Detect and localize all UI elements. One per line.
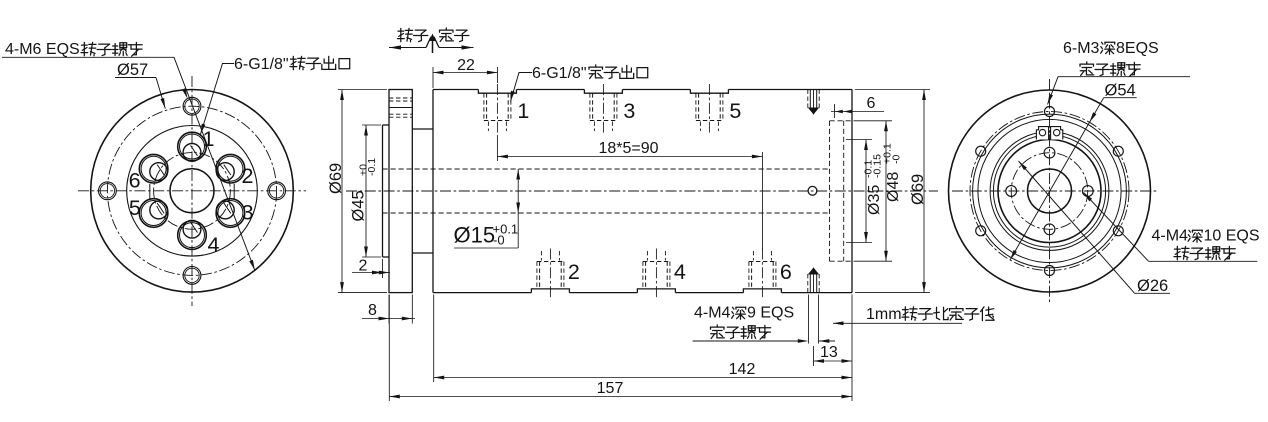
section view centerline <box>346 190 938 192</box>
svg-text:9 EQS: 9 EQS <box>747 305 794 322</box>
svg-text:4: 4 <box>674 260 686 284</box>
dim D69 left (rotated) <box>341 90 343 293</box>
dim D69 right (rotated) <box>855 89 930 91</box>
dim D35 tolerance (rotated) <box>846 139 872 141</box>
svg-text:6-M3: 6-M3 <box>1063 40 1100 57</box>
dim 142 <box>433 295 435 383</box>
M6 mounting hole 3 <box>183 267 201 285</box>
body top edge <box>433 89 478 91</box>
svg-text:6-G1/8": 6-G1/8" <box>234 56 289 73</box>
svg-text:2: 2 <box>359 258 368 275</box>
stator port 4 (G1/8) <box>637 289 675 293</box>
centerline crosshair <box>78 190 306 192</box>
rotor boss D45 left face <box>382 125 384 257</box>
M3 stator screw hole 5 <box>1113 226 1123 236</box>
svg-text:5: 5 <box>729 99 741 123</box>
M4 hole extension lines <box>808 295 810 344</box>
rotor end face hidden line <box>843 121 845 261</box>
rotor end boss D35 <box>998 140 1101 243</box>
svg-text:1: 1 <box>517 99 529 123</box>
M4 rotor screw hole 1 <box>1044 147 1055 158</box>
G1/8 rotor port 1 <box>178 132 207 161</box>
svg-text:3: 3 <box>242 200 254 224</box>
hidden bore D15 lines <box>383 168 830 170</box>
svg-text:Ø48: Ø48 <box>885 172 902 202</box>
svg-text:8: 8 <box>368 302 377 319</box>
bolt circle D54 (dash-dot) <box>970 112 1129 271</box>
svg-text:Ø26: Ø26 <box>1137 277 1168 295</box>
stator body D69 outline <box>432 90 434 293</box>
svg-text:Ø69: Ø69 <box>327 163 345 194</box>
svg-text:142: 142 <box>729 361 756 378</box>
stator face groove circle 1 <box>973 114 1127 268</box>
svg-text:Ø15: Ø15 <box>454 223 496 248</box>
bolt circle D26 (dash-dot) <box>1011 153 1088 230</box>
stator port 2 (G1/8) <box>531 289 569 293</box>
thread runout ticks between ports <box>233 184 235 199</box>
M3 stator screw hole 1 <box>1045 107 1055 117</box>
svg-text:8EQS: 8EQS <box>1116 40 1159 57</box>
stator outer circle D69 <box>949 90 1151 292</box>
stator port 5 (G1/8) <box>690 90 728 94</box>
rotor/stator direction symbol <box>398 28 413 41</box>
svg-text:Ø57: Ø57 <box>117 61 148 79</box>
svg-text:Ø35: Ø35 <box>866 185 883 215</box>
stator port 3 (G1/8) <box>584 90 622 94</box>
stator face groove circle 2 <box>978 119 1121 262</box>
rotor boss circle D45 <box>127 126 258 257</box>
dim 18*5=90 <box>496 135 498 161</box>
center bore D15 <box>1028 169 1072 213</box>
G1/8 rotor port 6 <box>139 154 168 183</box>
dim 6 (recess depth) <box>834 104 836 118</box>
G1/8 rotor port 2 <box>216 154 245 183</box>
M3 stator screw hole 3 <box>976 226 986 236</box>
svg-text:18*5=90: 18*5=90 <box>598 140 658 157</box>
dim D45 with tolerance (rotated) <box>365 125 367 257</box>
svg-text:-0: -0 <box>891 155 903 164</box>
svg-text:4-M6 EQS: 4-M6 EQS <box>5 41 80 58</box>
port pilot circle (dash-dot) <box>154 152 231 229</box>
body bottom edge <box>433 292 531 294</box>
M4 stator screw hole (bottom) <box>807 274 809 293</box>
svg-text:13: 13 <box>820 344 838 361</box>
svg-text:6-G1/8": 6-G1/8" <box>532 65 587 82</box>
svg-text:Ø45: Ø45 <box>350 190 368 221</box>
stator port 6 (G1/8) <box>743 289 781 293</box>
dim 13 <box>813 346 815 366</box>
svg-text:-0: -0 <box>493 232 505 247</box>
M4 rotor screw hole 3 <box>1044 224 1055 235</box>
svg-text:Ø54: Ø54 <box>1105 82 1136 100</box>
dim D48 tolerance (rotated) <box>854 120 893 122</box>
M3 stator screw hole 2 <box>976 146 986 156</box>
svg-text:2: 2 <box>568 260 580 284</box>
svg-text:4-M4: 4-M4 <box>1152 228 1189 245</box>
G1/8 rotor port 4 <box>178 221 207 250</box>
bolt circle D57 (dash-dot) <box>107 106 276 275</box>
M3 stator screw hole 6 <box>1113 146 1123 156</box>
stator face groove circle 3 <box>990 132 1109 251</box>
terminal pads with pin holes at top <box>1036 127 1048 140</box>
rotor shaft neck D45 <box>412 128 433 130</box>
stator port 1 (G1/8) <box>478 90 516 94</box>
svg-text:22: 22 <box>457 57 475 74</box>
svg-text:1mm: 1mm <box>866 306 902 323</box>
dim D15 bore with tolerance <box>517 169 519 248</box>
leader to M6 holes <box>174 57 255 270</box>
M3 stator screw hole 4 <box>1045 266 1055 276</box>
svg-text:6: 6 <box>780 260 792 284</box>
M4 rotor screw hole 2 <box>1006 186 1017 197</box>
M6 mounting hole 4 <box>268 182 286 200</box>
G1/8 rotor port 5 <box>139 199 168 228</box>
svg-text:5: 5 <box>129 196 141 220</box>
dim 8 (flange thickness) <box>388 295 390 324</box>
hidden G1/8 rotor exit port in flange <box>389 97 412 99</box>
center bore D15 <box>170 169 214 213</box>
flange outer circle D69 <box>91 90 294 293</box>
G1/8 rotor port 3 <box>216 199 245 228</box>
svg-text:4-M4: 4-M4 <box>694 305 731 322</box>
crosshair <box>952 190 1157 192</box>
svg-text:6: 6 <box>867 95 876 112</box>
svg-text:6: 6 <box>129 168 141 192</box>
svg-text:4: 4 <box>208 233 220 257</box>
svg-text:157: 157 <box>597 380 624 397</box>
radial pin hole on centerline <box>808 186 817 195</box>
svg-text:2: 2 <box>242 164 254 188</box>
stator face groove circle 4 <box>993 135 1105 247</box>
rotor flange D69 <box>389 90 412 293</box>
M6 mounting hole 1 <box>183 97 201 115</box>
dim 22 <box>432 67 434 88</box>
svg-text:3: 3 <box>623 99 635 123</box>
svg-text:10 EQS: 10 EQS <box>1204 228 1260 245</box>
M6 mounting hole 2 <box>99 182 117 200</box>
svg-text:-0.1: -0.1 <box>366 158 378 176</box>
dim 2 (boss protrusion) <box>382 259 384 278</box>
svg-text:Ø69: Ø69 <box>909 174 927 205</box>
dim 157 <box>388 295 390 402</box>
hidden recess D48 at right end <box>829 121 831 261</box>
M4 stator screw hole (top) <box>807 90 809 109</box>
M4 rotor screw hole 4 <box>1082 186 1093 197</box>
